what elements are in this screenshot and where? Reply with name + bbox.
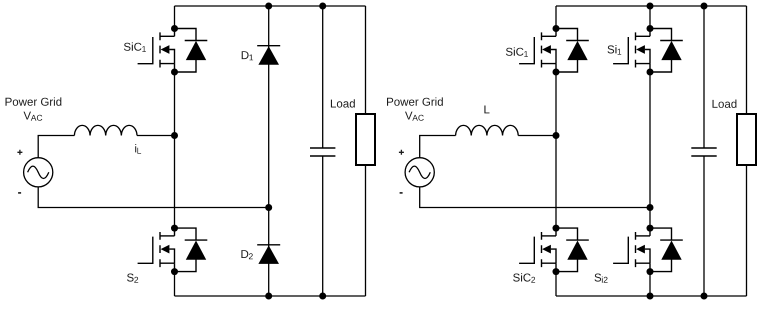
wire: left AC source hot lead to inductor <box>38 136 74 159</box>
AC source V1 (left Power Grid) <box>24 158 53 187</box>
wire: right circuit SiC leg midpoint run <box>555 72 557 228</box>
wire: right circuit capacitor leg <box>703 6 705 296</box>
label: + terminal (left) <box>17 150 22 155</box>
MOSFET S2 (left circuit low side) <box>138 225 208 276</box>
wire: left circuit bottom DC rail <box>175 295 366 297</box>
node: right inductor/bridge junction <box>553 132 560 139</box>
wire: right circuit Si leg (top rail to Si1 drain) <box>649 6 651 29</box>
wire: right AC source return to Si leg midpoint <box>420 187 650 208</box>
label: SiC2 <box>513 273 535 283</box>
node: cap leg bottom rail junction (right) <box>701 293 708 300</box>
wire: left leg from top rail to SiC1 drain <box>174 6 176 29</box>
node: Si leg bottom rail junction <box>647 293 654 300</box>
label: SiC1 (right) <box>506 47 528 57</box>
wire: left circuit capacitor leg <box>322 6 324 296</box>
wire: right circuit Si leg midpoint run <box>649 72 651 228</box>
label: S2 <box>127 274 138 283</box>
diode D2 <box>257 245 280 264</box>
node: left inductor/bridge junction <box>171 132 178 139</box>
capacitor (right DC link) <box>691 148 716 156</box>
label: + terminal (right) <box>399 150 404 155</box>
label: Power Grid (left) <box>6 97 62 105</box>
MOSFET SiC1 (left circuit high side) <box>138 25 208 76</box>
wire: left leg midpoint run (SiC1 source to S2 drain) <box>174 72 176 228</box>
wire: right inductor to bridge midpoint <box>518 135 556 137</box>
node: cap leg top rail junction (right) <box>701 3 708 10</box>
inductor iL <box>74 125 137 135</box>
wire: right circuit SiC leg from top rail to SiC1 drain <box>555 6 557 29</box>
wire: left circuit load branch <box>365 6 367 296</box>
label: Load (right) <box>713 100 737 108</box>
label: VAC (right) <box>405 112 424 121</box>
label: D1 <box>242 51 253 60</box>
wire: right circuit bottom DC rail <box>556 295 747 297</box>
wire: inductor to bridge midpoint <box>137 135 175 137</box>
MOSFET Si1 (right circuit high side Si) <box>613 25 683 76</box>
resistor Load (left) <box>356 114 375 165</box>
label: iL <box>135 144 141 154</box>
inductor L <box>456 125 519 135</box>
AC source V2 (right Power Grid) <box>405 158 434 187</box>
wire: right circuit load branch <box>746 6 748 296</box>
MOSFET Si2 (right circuit low side Si) <box>613 225 683 276</box>
label: - terminal (left) <box>18 192 21 194</box>
capacitor (left DC link) <box>310 148 335 156</box>
node: cap leg top rail junction (left) <box>319 3 326 10</box>
node: Si leg top rail junction <box>647 3 654 10</box>
resistor Load (right) <box>737 114 756 165</box>
wire: right circuit SiC leg to bottom rail <box>555 272 557 296</box>
label: SiC1 (left) <box>124 42 146 52</box>
node: diode leg bottom rail junction <box>265 293 272 300</box>
wire: left circuit diode leg <box>268 6 270 296</box>
label: VAC (left) <box>24 112 43 121</box>
MOSFET SiC2 (right circuit low side SiC) <box>519 225 589 276</box>
wire: right AC source hot lead to inductor <box>420 136 456 159</box>
MOSFET SiC1 (right circuit high side SiC) <box>519 25 589 76</box>
label: Si1 <box>608 45 622 55</box>
label: D2 <box>241 250 252 259</box>
label: Power Grid (right) <box>387 97 443 105</box>
label: - terminal (right) <box>400 192 403 194</box>
label: L <box>484 106 489 114</box>
wire: left AC source return to diode leg midpoint <box>38 187 269 208</box>
wire: right circuit top DC rail <box>556 5 747 7</box>
node: AC return / diode leg midpoint <box>265 204 272 211</box>
wire: right circuit Si leg to bottom rail <box>649 272 651 296</box>
node: AC return / Si leg midpoint <box>647 204 654 211</box>
diode D1 <box>257 46 280 65</box>
wire: left leg from S2 source to bottom rail <box>174 272 176 296</box>
label: Load (left) <box>331 99 355 107</box>
label: Si2 <box>595 274 608 283</box>
wire: left circuit top DC rail <box>175 5 366 7</box>
node: diode leg top rail junction <box>265 3 272 10</box>
node: cap leg bottom rail junction (left) <box>319 293 326 300</box>
